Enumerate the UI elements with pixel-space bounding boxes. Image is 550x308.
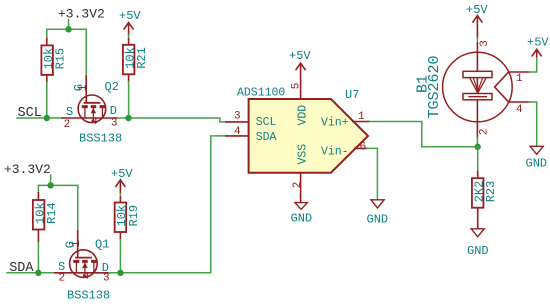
svg-text:D: D (110, 104, 117, 118)
svg-text:R19: R19 (127, 205, 141, 227)
wire +3.3V2 top horizontal (47, 28, 86, 30)
wire to Q2 gate (85, 29, 87, 76)
svg-text:R15: R15 (54, 48, 68, 70)
resistor R14 10k (33, 193, 59, 242)
svg-text:+5V: +5V (119, 9, 141, 23)
resistor R19 10k (115, 197, 141, 240)
svg-text:R23: R23 (484, 181, 498, 203)
svg-text:2: 2 (479, 128, 491, 135)
node SCL/R21 junction (125, 115, 131, 121)
wire R14 bottom to SDA (37, 242, 39, 273)
svg-text:+3.3V2: +3.3V2 (4, 162, 51, 177)
svg-text:1: 1 (358, 111, 365, 123)
ground GND (Vin-) (367, 200, 389, 227)
svg-text:2: 2 (292, 182, 304, 189)
svg-text:SDA: SDA (256, 131, 277, 144)
svg-text:2: 2 (59, 273, 66, 285)
node SCL junction (44, 115, 50, 121)
svg-text:1: 1 (516, 73, 523, 85)
node +3.3V2 top junction (65, 26, 71, 32)
svg-text:3: 3 (479, 40, 491, 47)
wire R21 bottom to SCL line (128, 82, 130, 119)
wire pin1 to +5V (529, 57, 536, 73)
pin 6 Vin- (355, 142, 367, 154)
node +3.3V2 bottom junction (47, 182, 53, 188)
node SDA junction (35, 270, 41, 276)
pin 2 sensor wire down (476, 138, 478, 147)
sensor B1 TGS2620 (414, 40, 512, 137)
svg-text:SCL: SCL (18, 106, 42, 121)
pin 1 Vin+ (353, 111, 370, 123)
power +5V (R19) (111, 167, 133, 194)
pin 4 SDA (226, 126, 249, 138)
wire SCL left (17, 117, 62, 119)
svg-text:+3.3V2: +3.3V2 (58, 7, 105, 22)
resistor R15 10k (41, 39, 67, 83)
wire Vin+ to sensor node (370, 122, 478, 147)
pin 1 sensor (509, 72, 530, 85)
pin 4 sensor (509, 102, 530, 116)
transistor Q1 BSS138 (55, 231, 110, 303)
svg-text:GND: GND (526, 157, 548, 171)
wire R15 bottom to SCL (46, 83, 48, 119)
svg-text:+5V: +5V (289, 49, 311, 63)
power +5V (sensor top) (466, 3, 488, 38)
wire +5V to R21 (128, 35, 130, 39)
svg-text:SCL: SCL (256, 116, 277, 129)
svg-text:GND: GND (367, 213, 389, 227)
svg-text:2: 2 (64, 119, 71, 131)
svg-text:1: 1 (78, 84, 90, 91)
wire SDA to chip pin4 (109, 136, 226, 273)
wire SCL to chip (118, 118, 226, 122)
node sensor/R23 junction (475, 144, 481, 150)
wire pin4 to GND (529, 102, 536, 146)
svg-text:R21: R21 (135, 47, 149, 69)
power +5V (right) (527, 36, 549, 57)
pin 2 VSS (292, 173, 304, 197)
svg-text:GND: GND (291, 212, 313, 226)
wire to R14 top (37, 185, 39, 192)
wire R19 bottom to SDA line (119, 240, 121, 273)
wire to Q1 gate (77, 185, 79, 230)
svg-text:VDD: VDD (297, 105, 310, 126)
svg-text:1: 1 (71, 240, 83, 247)
resistor R21 10k (123, 39, 149, 82)
svg-text:4: 4 (516, 104, 523, 116)
svg-text:SDA: SDA (9, 261, 34, 276)
power +5V (R21) (119, 9, 141, 35)
svg-text:R14: R14 (45, 202, 59, 224)
svg-text:S: S (66, 105, 73, 119)
op-amp U7 ADS1100 body (237, 87, 368, 173)
svg-text:U7: U7 (345, 88, 359, 102)
svg-text:BSS138: BSS138 (67, 289, 110, 303)
node SDA/R19 junction (117, 270, 123, 276)
svg-text:3: 3 (111, 118, 118, 130)
wire to R15 top (46, 29, 48, 38)
svg-text:5: 5 (291, 83, 303, 90)
svg-text:3: 3 (103, 273, 110, 285)
ground GND (R23) (467, 229, 489, 258)
wire Vin- to GND (367, 148, 378, 199)
resistor R23 2K2 (472, 172, 498, 229)
svg-text:TGS2620: TGS2620 (426, 55, 443, 118)
svg-text:GND: GND (467, 244, 489, 258)
svg-text:+5V: +5V (527, 36, 549, 50)
ground GND (right) (526, 146, 548, 170)
svg-text:ADS1100: ADS1100 (237, 87, 285, 100)
wire +5V to sensor pin3 (476, 38, 478, 43)
svg-text:Vin-: Vin- (321, 146, 349, 159)
wire +3.3V2 bottom horizontal (38, 184, 78, 186)
svg-text:VSS: VSS (297, 144, 310, 165)
transistor Q2 BSS138 (62, 76, 122, 146)
svg-text:Q2: Q2 (105, 80, 119, 94)
pin 3 SCL (226, 110, 249, 122)
power +5V (VDD) (289, 49, 311, 70)
svg-text:+5V: +5V (111, 167, 133, 181)
wire SDA left (7, 272, 55, 274)
svg-text:Q1: Q1 (95, 238, 109, 252)
power +3.3V2 (bottom) (4, 162, 51, 185)
wire +5V to R19 (119, 194, 121, 198)
svg-text:4: 4 (234, 126, 241, 138)
ground GND (VSS) (291, 197, 313, 226)
svg-text:Vin+: Vin+ (321, 116, 349, 129)
power +3.3V2 (top) (58, 7, 105, 30)
svg-text:BSS138: BSS138 (79, 132, 122, 146)
wire node to R23 (477, 147, 479, 172)
svg-text:6: 6 (360, 142, 367, 154)
svg-text:3: 3 (234, 110, 241, 122)
pin 5 VDD (291, 64, 303, 99)
